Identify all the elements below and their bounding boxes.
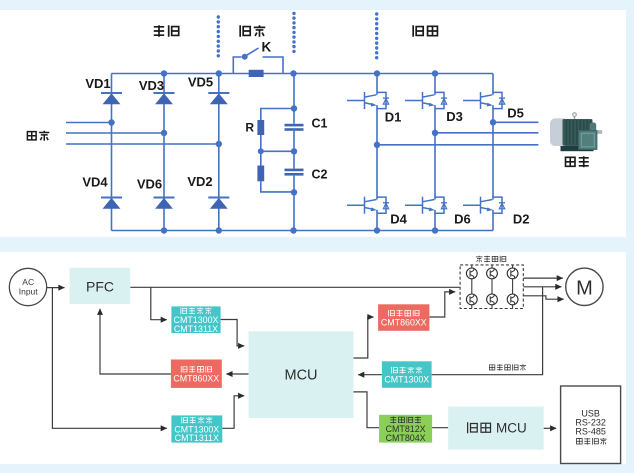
block USB interface box [561, 386, 621, 464]
dotted separator 2 [292, 12, 295, 53]
transistor D5 (IGBT) [463, 92, 505, 109]
module transistor at 471.8,273.4 [466, 268, 477, 279]
label phase current detect [489, 364, 526, 370]
module transistor at 492,273.4 [487, 268, 498, 279]
block iso-driver U4 (CMT860XX) [171, 360, 222, 388]
wire AC to PFC [47, 287, 65, 289]
block comm MCU [448, 407, 543, 450]
node bottom bus / inv leg2 [432, 227, 438, 233]
svg-text:C1: C1 [312, 117, 328, 131]
wire phase input line 3 [66, 143, 219, 145]
svg-text:VD2: VD2 [187, 174, 212, 189]
wire phase current tap to iso-sample2 [432, 287, 543, 375]
motor icon [550, 113, 602, 151]
node phase leg3 [490, 119, 496, 125]
node top bus / leg2 [161, 70, 167, 76]
svg-text:K: K [262, 40, 272, 55]
wire module to M line1 [523, 277, 563, 279]
block PFC [70, 268, 131, 304]
AC input circle [9, 268, 46, 305]
bottom white panel [0, 252, 626, 464]
node phase3/leg3 [216, 141, 222, 147]
svg-text:PFC: PFC [86, 279, 114, 295]
wire top DC bus [112, 73, 494, 75]
svg-text:CMT860XX: CMT860XX [173, 373, 219, 383]
node bottom bus / leg2 [161, 227, 167, 233]
svg-text:VD6: VD6 [137, 177, 162, 192]
wire AC branch down to iso-sample 3 [52, 288, 166, 429]
diode VD6 [154, 198, 175, 209]
node phase1/leg1 [108, 119, 114, 125]
module transistor at 492,299.4 [487, 294, 498, 305]
filter main vertical wire [261, 74, 294, 231]
svg-text:Input: Input [19, 287, 39, 297]
svg-text:VD1: VD1 [85, 76, 110, 91]
block iso-sample U5 (CMT1300X/CMT1311X) [171, 415, 222, 442]
transistor D3 (IGBT) [405, 92, 447, 109]
diode VD2 [208, 198, 229, 209]
svg-text:M: M [576, 278, 593, 300]
wire MCU to iso-driver 1 [354, 317, 374, 358]
wire phase input line 1 [66, 122, 112, 124]
node inv top bus leg2 [432, 70, 438, 76]
transistor D1 (IGBT) [347, 92, 389, 109]
wire bottom DC bus [112, 230, 494, 232]
module transistor at 471.8,299.4 [466, 294, 477, 305]
label nibian (invert) [413, 25, 437, 36]
wire MCU to digital-iso [354, 392, 380, 428]
svg-text:VD5: VD5 [188, 75, 213, 90]
label lvbo (filter) [240, 25, 265, 36]
filter node dots [258, 105, 297, 195]
transistor D4 (IGBT) [347, 197, 389, 214]
svg-text:R: R [245, 121, 254, 135]
node C2 bottom [291, 189, 297, 195]
capacitor C2 [285, 169, 304, 176]
svg-text:D1: D1 [385, 110, 402, 125]
svg-text:D2: D2 [513, 212, 530, 227]
diode VD1 [101, 93, 122, 104]
transistor D6 (IGBT) [405, 197, 447, 214]
top white panel [0, 10, 626, 237]
dotted separator 1 [217, 15, 220, 57]
svg-text:D6: D6 [454, 212, 471, 227]
wire comm MCU to USB box [544, 427, 557, 429]
block digital-iso U7 (CMT812X/CMT804X) [379, 415, 432, 443]
wire iso-driver1 to power module [429, 292, 455, 317]
wire phase out W (leg1) [377, 144, 538, 146]
wire MCU to iso-driver 2 (left) [226, 373, 248, 375]
node top bus / filter tap [290, 70, 296, 76]
module column wire x=512.6 [512, 265, 514, 309]
wire rectifier leg 2 [163, 74, 165, 231]
node dots on buses and phase lines [108, 70, 438, 233]
svg-text:D4: D4 [390, 212, 407, 227]
wire phase input line 2 [66, 132, 164, 134]
node phase2/leg2 [161, 130, 167, 136]
block MCU [249, 331, 354, 418]
diode VD5 [208, 93, 229, 104]
node bottom bus / inv leg1 [374, 227, 380, 233]
node top bus / leg3 [216, 70, 222, 76]
label power module [476, 256, 506, 263]
wire iso-sample3 to MCU [222, 396, 244, 429]
svg-text:C2: C2 [312, 168, 328, 182]
node bottom bus / leg3 [216, 227, 222, 233]
block iso-sample U6 (CMT1300X) [382, 361, 432, 388]
module transistor at 512.6,299.4 [507, 294, 518, 305]
switch K bypass wiring [233, 57, 283, 74]
power module dashed box [460, 265, 523, 309]
wire digital-iso to comm MCU [432, 427, 448, 429]
wire branch PFC out down to iso-sample 1 [151, 287, 167, 319]
node bottom bus / filter [290, 227, 296, 233]
wire module to M line3 [523, 296, 563, 299]
wire PFC to power module [130, 286, 459, 288]
wire rectifier leg 3 [218, 74, 220, 231]
svg-text:CMT860XX: CMT860XX [381, 317, 427, 327]
capacitor C1 [285, 124, 304, 131]
module column wire x=492 [491, 265, 493, 309]
label dianyuan (power source) [27, 131, 49, 141]
dotted separator 3 [375, 12, 378, 59]
svg-text:AC: AC [22, 277, 34, 287]
node phase leg2 [432, 130, 438, 136]
svg-text:VD4: VD4 [82, 175, 108, 190]
label dianji (motor) [566, 156, 589, 167]
svg-text:CMT1311X: CMT1311X [175, 433, 219, 443]
svg-text:D5: D5 [507, 106, 524, 121]
node inv top bus leg1 [374, 70, 380, 76]
wire R branch mid link [261, 135, 294, 166]
wire iso-driver2 to PFC bottom [100, 309, 171, 374]
node phase leg1 [374, 142, 380, 148]
node filter top tap [291, 105, 297, 111]
svg-text:RS-485: RS-485 [575, 427, 606, 437]
svg-text:CMT1300X: CMT1300X [384, 374, 429, 384]
diode VD4 [101, 198, 122, 209]
svg-text:D3: D3 [446, 109, 463, 124]
svg-text:VD3: VD3 [139, 78, 164, 93]
wire filter tap to R branch [261, 109, 294, 121]
switch K lever [247, 48, 259, 55]
svg-text:MCU: MCU [284, 368, 317, 384]
node C1/C2 mid [291, 148, 297, 154]
svg-text:CMT804X: CMT804X [386, 433, 426, 443]
diode VD3 [154, 93, 175, 104]
motor M circle [566, 268, 603, 305]
switch K contact dot [242, 54, 248, 60]
block iso-sample U2 (CMT1300X/CMT1311X) [171, 306, 220, 333]
resistor (precharge) on bus [249, 70, 264, 77]
module column wire x=471.8 [471, 265, 473, 309]
wire R branch bottom link [261, 181, 294, 192]
resistor R [257, 120, 264, 135]
resistor R2 (lower balancing) [257, 166, 264, 182]
wire rectifier leg 1 [111, 74, 113, 231]
wire iso-sample1 to MCU [221, 320, 245, 346]
node R/C mid left [258, 148, 264, 154]
label zhengliu (rectify) [154, 25, 179, 36]
svg-text:CMT1311X: CMT1311X [174, 324, 218, 334]
wire phase out V (leg2) [435, 132, 538, 134]
inverter legs [377, 74, 538, 231]
wire module to M line2 [523, 286, 561, 288]
svg-text:MCU: MCU [496, 421, 527, 436]
transistor D2 (IGBT) [463, 197, 505, 214]
module transistor at 512.6,273.4 [507, 268, 518, 279]
wire iso-sample2 to MCU [358, 374, 382, 376]
wire phase out U (leg3) [493, 121, 538, 123]
block iso-driver U3 (CMT860XX) [378, 304, 429, 331]
